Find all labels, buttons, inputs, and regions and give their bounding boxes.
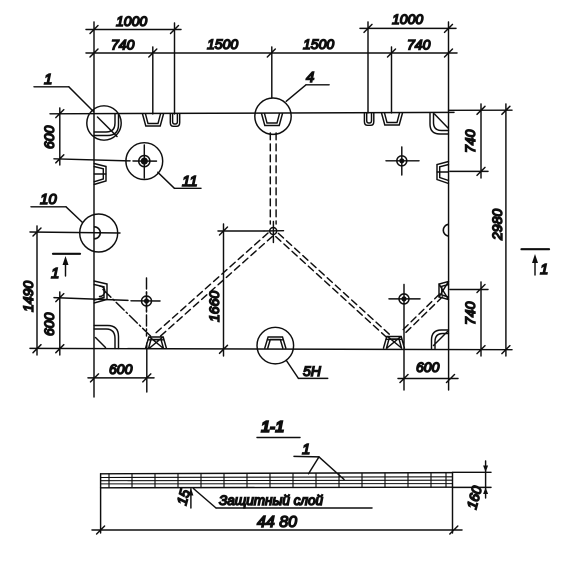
- dim 600 bottom right: [398, 378, 458, 380]
- apex node of slings: [270, 228, 277, 235]
- dash-dot diagonal left: [103, 290, 151, 337]
- corner detail top-left: [94, 114, 119, 136]
- svg-text:Защитный слой: Защитный слой: [219, 493, 324, 508]
- extension line y=298 to crosshair bl: [54, 298, 128, 301]
- extension line y=159 to crosshair 11: [54, 159, 130, 161]
- plate top edge: [50, 112, 454, 113]
- insert small rounded top x=369: [364, 113, 373, 125]
- insert trapezoid top x=392: [382, 113, 403, 125]
- detail circle 10: [80, 214, 118, 252]
- svg-text:1660: 1660: [206, 291, 222, 322]
- svg-text:1: 1: [51, 265, 59, 282]
- svg-text:11: 11: [182, 173, 198, 190]
- extension line x=153 above plate: [152, 47, 154, 114]
- svg-text:1500: 1500: [303, 36, 334, 52]
- label 4 leader: [286, 85, 306, 102]
- dim 160: [453, 471, 492, 473]
- slab section outline: [101, 473, 453, 474]
- extension line right 740 bottom tick level: [450, 289, 488, 291]
- svg-text:600: 600: [416, 359, 440, 375]
- svg-text:10: 10: [40, 191, 57, 208]
- corner detail bottom-left: [94, 326, 119, 349]
- svg-text:15: 15: [173, 487, 193, 506]
- svg-text:740: 740: [462, 129, 478, 153]
- bracket insert right edge upper: [437, 162, 449, 184]
- dim 740 right bottom: [480, 282, 482, 356]
- dash-dot vertical bl: [146, 278, 148, 336]
- svg-text:5H: 5H: [303, 363, 322, 379]
- svg-text:740: 740: [462, 301, 478, 325]
- insert trapezoid top center x=272: [262, 114, 283, 126]
- bracket insert left edge upper: [94, 164, 106, 185]
- svg-text:2980: 2980: [489, 209, 505, 241]
- extension line x=392 above plate: [391, 47, 393, 113]
- svg-text:740: 740: [111, 37, 135, 53]
- svg-text:4: 4: [306, 69, 314, 86]
- corner detail bottom-right: [432, 330, 449, 349]
- svg-text:1-1: 1-1: [261, 419, 284, 436]
- label 11 leader: [158, 172, 175, 188]
- crosshair anchor bottom-right: [403, 285, 405, 391]
- extension line x=174.5 above plate: [174, 23, 176, 114]
- slab mesh lines: [101, 477, 453, 484]
- plate right edge: [448, 22, 450, 390]
- detail circle 11: [126, 143, 163, 180]
- svg-text:1: 1: [44, 71, 52, 88]
- bracket insert right edge lower: [439, 282, 449, 300]
- label 5H leader: [286, 360, 298, 378]
- dim 600 left bottom: [59, 292, 61, 355]
- extension line y=232 through circle 10: [30, 232, 120, 233]
- insert bottom center in circle 5H: [265, 337, 286, 348]
- slab dividers: [109, 473, 446, 488]
- insert trapezoid top x=153: [143, 114, 164, 126]
- extension line x=272 above plate: [271, 47, 273, 98]
- svg-text:1000: 1000: [392, 11, 423, 27]
- sling double dash vertical: [269, 133, 271, 224]
- dim 600 left top: [59, 108, 61, 165]
- crosshair anchor 11: [143, 145, 145, 178]
- anchor loop left edge: [94, 227, 100, 239]
- dim 15 protective layer: [190, 489, 192, 508]
- detail circle 4: [255, 98, 291, 134]
- extension below insert bl: [146, 343, 148, 392]
- detail circle 1: [87, 106, 121, 140]
- svg-text:740: 740: [407, 37, 431, 53]
- section mark left: [53, 253, 80, 255]
- dim 2980: [505, 104, 507, 356]
- svg-text:1490: 1490: [20, 281, 36, 312]
- extension line right 740 top tick level: [450, 170, 488, 172]
- plate left edge: [93, 22, 95, 397]
- svg-text:1: 1: [302, 441, 310, 458]
- dim 4480: [92, 529, 462, 531]
- crosshair anchor bottom-left: [146, 292, 148, 311]
- label protective layer: [193, 489, 216, 509]
- dim 600 bottom left: [88, 377, 154, 379]
- plate bottom edge: [30, 348, 512, 349]
- svg-text:600: 600: [109, 361, 133, 377]
- section mark right: [522, 248, 550, 250]
- dim line 1000 right: [360, 27, 456, 29]
- svg-text:1: 1: [540, 261, 548, 278]
- dim 1660: [223, 224, 225, 356]
- extension line top right: [449, 109, 513, 111]
- dim 1490: [36, 226, 38, 355]
- insert bottom right x=394: [384, 337, 405, 349]
- crosshair anchor top-right: [401, 147, 403, 175]
- insert bottom left x=156: [146, 337, 167, 349]
- sling double dash right bracket: [403, 294, 440, 330]
- dim 740 right top: [480, 104, 482, 178]
- label 1 top-left leader: [34, 86, 69, 88]
- dim line 1000 left: [86, 29, 181, 31]
- sling double dash down-right: [278, 233, 389, 334]
- svg-text:44 80: 44 80: [257, 514, 297, 531]
- anchor loop right edge: [443, 224, 448, 236]
- insert small rounded top x=175: [170, 114, 179, 126]
- corner detail top-right: [430, 114, 449, 135]
- detail circle 5H: [257, 327, 294, 364]
- extension line x=368 above plate: [367, 22, 369, 113]
- bracket insert left edge lower: [94, 281, 107, 303]
- svg-text:600: 600: [41, 312, 57, 336]
- svg-text:1500: 1500: [207, 36, 238, 52]
- svg-text:600: 600: [41, 125, 57, 149]
- sling double dash down-left: [154, 233, 269, 335]
- dim line 740-1500-1500-740: [86, 52, 457, 54]
- svg-text:1000: 1000: [116, 13, 147, 29]
